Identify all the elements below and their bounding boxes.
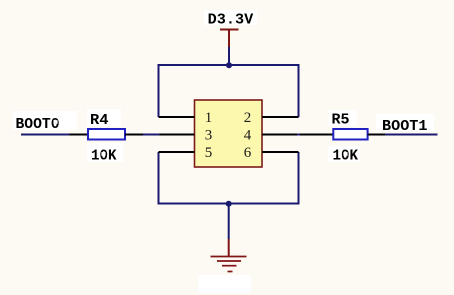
patch: hide mono dotted-zero artifacts xyxy=(53,120,57,124)
svg-text:BOOT1: BOOT1 xyxy=(382,118,428,135)
IC jumper-block body (pins 1-6) xyxy=(195,100,263,167)
white label box for R5 xyxy=(329,110,357,126)
white label box for D3.3V xyxy=(204,10,257,25)
pin 2 stub xyxy=(262,116,299,118)
resistor R5 body xyxy=(333,129,367,140)
svg-text:5: 5 xyxy=(205,145,213,161)
node BOOT0 wire xyxy=(21,134,70,136)
resistor R5 left lead xyxy=(300,134,333,136)
svg-text:D3.3V: D3.3V xyxy=(208,11,254,28)
svg-text:4: 4 xyxy=(244,128,252,144)
wire from bottom rail down to ground xyxy=(228,204,230,240)
svg-text:R5: R5 xyxy=(332,112,350,129)
svg-text:6: 6 xyxy=(244,145,252,161)
white label box for BOOT0 xyxy=(13,111,77,130)
white watermark patch below ground xyxy=(198,275,251,293)
svg-text:R4: R4 xyxy=(90,112,109,129)
wire from power bar down to top rail xyxy=(228,47,230,65)
svg-text:BOOT0: BOOT0 xyxy=(16,116,60,133)
ground symbol xyxy=(211,239,247,272)
white label box for 10K (left) xyxy=(87,143,123,162)
resistor R4 body xyxy=(88,129,125,140)
wire bottom rail loop (pin5 - bottom - pin6) xyxy=(159,152,299,204)
svg-text:1: 1 xyxy=(205,110,213,126)
white label box for 10K (right) xyxy=(328,146,360,162)
pin 5 stub xyxy=(159,151,195,153)
resistor R4 left lead xyxy=(70,134,89,136)
resistor R4 right lead xyxy=(125,134,143,136)
pin 4 stub xyxy=(262,134,297,136)
resistor R5 right lead xyxy=(368,134,385,136)
svg-text:3: 3 xyxy=(205,128,213,144)
pin 6 stub xyxy=(262,151,299,153)
junction dot on bottom rail xyxy=(226,201,232,207)
wire pin 4 to R5 xyxy=(297,134,300,136)
wire top rail loop (pin1 - top - pin2) xyxy=(159,65,299,117)
white label box for BOOT1 xyxy=(376,114,434,132)
svg-text:10K: 10K xyxy=(333,147,359,164)
pin 3 stub xyxy=(160,134,195,136)
pin 1 stub xyxy=(159,116,195,118)
power symbol D3.3V (bar) xyxy=(220,30,239,48)
svg-text:10K: 10K xyxy=(91,147,117,164)
junction dot on top rail xyxy=(226,62,232,68)
node BOOT1 wire xyxy=(385,134,438,136)
svg-text:2: 2 xyxy=(244,110,252,126)
white label box for R4 xyxy=(87,109,121,126)
wire R4 to pin 3 xyxy=(143,134,160,136)
